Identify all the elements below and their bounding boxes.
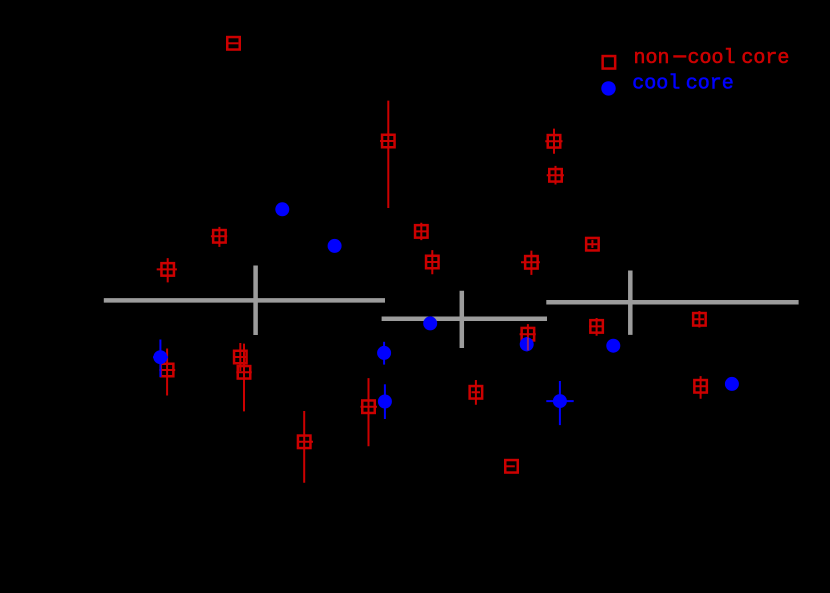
legend marker: non-cool core open square bbox=[603, 56, 616, 69]
svg-text:cool: cool bbox=[688, 47, 736, 70]
cool-core point B9: error bars + filled circle marker bbox=[606, 339, 620, 353]
cool-core point B4: error bars + filled circle marker bbox=[377, 342, 391, 365]
non-cool-core point R14: error bars + open square marker bbox=[298, 411, 313, 483]
cool-core point B6: error bars + filled circle marker bbox=[423, 316, 437, 330]
cool-core point B8: error bars + filled circle marker bbox=[546, 381, 573, 425]
non-cool-core point R9: error bars + open square marker bbox=[586, 238, 599, 251]
cool-core point B10: error bars + filled circle marker bbox=[725, 377, 739, 391]
non-cool-core point R12: error bars + open square marker bbox=[233, 343, 247, 371]
cool-core point B7: error bars + filled circle marker bbox=[520, 337, 534, 351]
svg-text:core: core bbox=[686, 73, 734, 96]
cool-core point B3: error bars + filled circle marker bbox=[153, 340, 168, 378]
non-cool-core point R20: error bars + open square marker bbox=[693, 311, 706, 328]
non-cool-core point R13: error bars + open square marker bbox=[236, 344, 252, 412]
non-cool-core point R10: error bars + open square marker bbox=[521, 251, 540, 275]
non-cool-core point R4: error bars + open square marker bbox=[157, 258, 177, 282]
non-cool-core point R3: error bars + open square marker bbox=[211, 227, 227, 247]
non-cool-core point R17: error bars + open square marker bbox=[505, 460, 518, 473]
non-cool-core point R5: error bars + open square marker bbox=[545, 129, 562, 154]
non-cool-core point R11: error bars + open square marker bbox=[159, 349, 175, 396]
non-cool-core point R1: error bars + open square marker bbox=[227, 37, 240, 50]
cool-core point B5: error bars + filled circle marker bbox=[378, 384, 392, 419]
gray mean cross G3 bbox=[546, 271, 798, 335]
cool-core point B1: error bars + filled circle marker bbox=[275, 202, 289, 216]
gray mean cross G1 bbox=[104, 266, 385, 336]
legend marker: cool core filled circle bbox=[601, 81, 615, 95]
non-cool-core point R2: error bars + open square marker bbox=[380, 101, 395, 208]
gray mean cross G2 bbox=[382, 291, 547, 348]
non-cool-core point R21: error bars + open square marker bbox=[694, 376, 707, 399]
non-cool-core point R8: error bars + open square marker bbox=[426, 250, 439, 274]
non-cool-core point R6: error bars + open square marker bbox=[547, 166, 564, 185]
red error bar segment showing over blue circle B7 (blended hue) bbox=[527, 338, 529, 351]
non-cool-core point R15: error bars + open square marker bbox=[361, 378, 378, 446]
non-cool-core point R19: error bars + open square marker bbox=[589, 318, 603, 336]
svg-text:core: core bbox=[741, 47, 789, 70]
non-cool-core point R7: error bars + open square marker bbox=[415, 223, 428, 240]
cool-core point B2: error bars + filled circle marker bbox=[328, 239, 342, 253]
svg-text:non: non bbox=[634, 47, 670, 70]
svg-text:cool: cool bbox=[632, 73, 680, 96]
non-cool-core point R18: error bars + open square marker bbox=[520, 324, 536, 350]
non-cool-core point R16: error bars + open square marker bbox=[470, 380, 483, 405]
